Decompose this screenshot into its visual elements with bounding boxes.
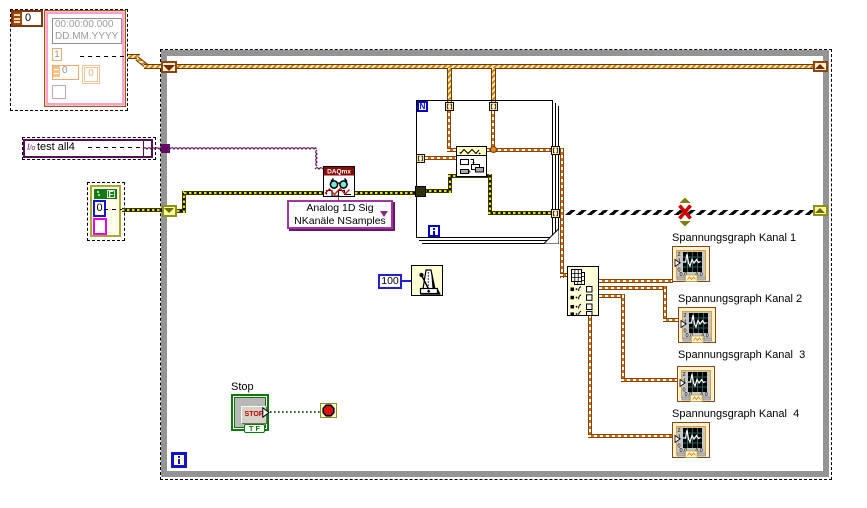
svg-text:DAQmx: DAQmx: [327, 169, 351, 176]
